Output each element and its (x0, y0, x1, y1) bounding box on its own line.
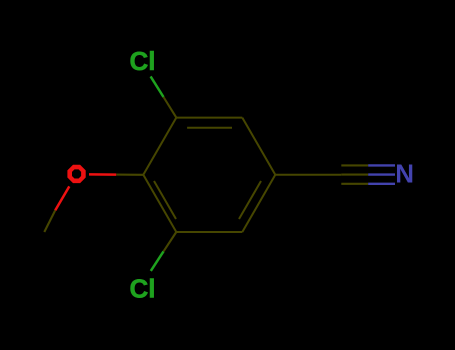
bond C5-Cl bottom: olive half (164, 232, 177, 251)
bond C3-Cl top: green half (151, 76, 164, 97)
svg-text:Cl: Cl (130, 46, 156, 76)
svg-text:Cl: Cl (130, 274, 156, 304)
wire inner aromatic line C2=C3 (187, 127, 232, 129)
wire ring bond C1-C2 (242, 118, 275, 175)
bond C4-O: olive half (116, 174, 143, 176)
wire ring bond C2-C3 (176, 117, 242, 119)
wire ring bond C4-C5 (143, 175, 176, 232)
bond O-CH3: olive half (methyl end) (44, 210, 55, 232)
wire ring bond C6-C1 (242, 175, 275, 232)
bond O-CH3: red half (55, 186, 69, 210)
benzene ring C1-C6 (olive carbon skeleton) (143, 118, 341, 232)
bond C5-Cl bottom: green half (151, 251, 164, 271)
triple bond Csp≡N: olive halves (341, 165, 368, 183)
wire inner aromatic line C4=C5 (154, 181, 176, 219)
wire ring bond C5-C6 (176, 231, 242, 233)
triple bond Csp≡N: blue halves (368, 165, 395, 183)
bond C4-O: red half (89, 173, 116, 176)
wire inner aromatic line C6=C1 (239, 181, 261, 219)
bond C3-Cl top: olive half (164, 97, 177, 118)
wire bond C1-Csp (to nitrile carbon) (275, 174, 341, 176)
oxygen label O (67, 165, 85, 183)
wire ring bond C3-C4 (143, 118, 176, 175)
svg-text:N: N (395, 159, 414, 189)
